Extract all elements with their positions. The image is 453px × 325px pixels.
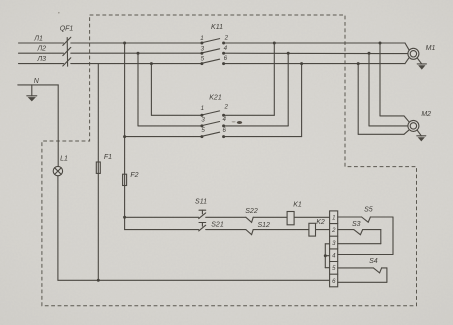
svg-text:Л2: Л2 — [36, 46, 46, 53]
pin numbers K21 — [201, 104, 229, 135]
svg-text:1: 1 — [201, 105, 204, 112]
wire control rail 1 — [125, 216, 330, 218]
switch S4 — [373, 268, 381, 273]
enclosure dashed border — [42, 15, 417, 306]
ground at M1 frame — [417, 58, 426, 70]
wire K21 out row2 to L2 bus — [224, 53, 289, 126]
lamp L1 — [53, 166, 62, 175]
fuse F1 — [96, 162, 100, 173]
svg-text:S12: S12 — [257, 222, 270, 229]
dust speck artifact — [58, 12, 242, 124]
svg-text:S3: S3 — [352, 221, 361, 228]
svg-text:5: 5 — [201, 56, 205, 63]
svg-text:6: 6 — [224, 55, 228, 62]
svg-text:5: 5 — [201, 127, 205, 134]
svg-text:2: 2 — [223, 104, 228, 111]
pushbutton S21 — [199, 223, 206, 231]
wire M2 feed from L2 — [369, 53, 408, 126]
svg-text:M2: M2 — [421, 111, 431, 118]
svg-text:Л1: Л1 — [33, 36, 43, 43]
wire neutral N — [18, 85, 58, 166]
circuit breaker QF1 — [63, 37, 71, 66]
svg-text:K11: K11 — [211, 24, 223, 31]
svg-text:K2: K2 — [316, 219, 325, 226]
switch S5 — [362, 217, 371, 222]
svg-text:2: 2 — [331, 228, 336, 234]
svg-text:1: 1 — [200, 35, 203, 42]
coil K1 — [287, 212, 294, 225]
svg-text:K1: K1 — [293, 201, 302, 208]
svg-text:S11: S11 — [195, 199, 207, 206]
contact S12 — [246, 230, 253, 235]
contactor contact K21 pole 3-4 — [202, 122, 219, 126]
svg-text:L1: L1 — [60, 155, 68, 162]
wire L3 to F1 to bottom rail — [97, 64, 99, 281]
wire M2 feed from L3 — [358, 64, 409, 135]
jumper bracket terminals 3-4-5 — [325, 244, 329, 268]
svg-text:F2: F2 — [130, 172, 138, 179]
svg-text:M1: M1 — [426, 45, 436, 52]
motor M2 — [408, 120, 419, 131]
svg-text:4: 4 — [224, 45, 228, 52]
ground at M2 frame — [417, 130, 426, 141]
wire tap L2 to K21 pin3 — [138, 53, 202, 126]
wire terminal5 to S4 loop — [338, 268, 387, 282]
wire K21 out row3 to L3 bus — [224, 64, 302, 137]
svg-text:S4: S4 — [369, 258, 378, 265]
svg-text:F1: F1 — [104, 154, 112, 161]
wire M2 feed from L1 — [380, 43, 409, 122]
svg-text:K21: K21 — [209, 95, 222, 102]
wire tap L3 to K21 pin1 — [151, 64, 202, 116]
wire phase L3 bus — [19, 58, 409, 64]
contactor contact K11 pole 5-6 — [202, 59, 219, 63]
svg-text:6: 6 — [222, 127, 226, 134]
svg-text:Л3: Л3 — [36, 56, 46, 63]
svg-text:S5: S5 — [364, 206, 373, 213]
ground on N — [27, 85, 37, 102]
wire phase L2 bus — [19, 52, 408, 54]
svg-text:3: 3 — [201, 45, 205, 52]
svg-text:2: 2 — [224, 35, 229, 42]
contactor contact K11 pole 3-4 — [202, 49, 219, 53]
motor M1 — [408, 48, 419, 59]
svg-text:3: 3 — [201, 116, 205, 123]
pushbutton S11 — [199, 210, 206, 218]
wire K21 out row1 to L1 bus — [224, 43, 275, 115]
svg-text:1: 1 — [332, 216, 335, 222]
svg-text:S22: S22 — [245, 208, 258, 215]
coil K2 — [309, 223, 316, 236]
terminal numbers 1-6 — [331, 216, 336, 285]
pin numbers K11 — [200, 35, 228, 63]
svg-text:QF1: QF1 — [60, 26, 74, 33]
wire phase L1 bus — [19, 43, 409, 50]
svg-text:S21: S21 — [211, 221, 224, 228]
wire lamp to bottom rail — [58, 176, 330, 280]
wire control rail 2 — [125, 229, 330, 231]
fuse F2 — [123, 174, 127, 185]
contact S22 — [246, 217, 253, 222]
terminal block XT — [330, 211, 338, 287]
contactor contact K21 pole 5-6 — [202, 132, 219, 136]
contactor contact K21 pole 1-2 — [202, 111, 219, 115]
svg-text:4: 4 — [222, 116, 226, 123]
contactor contact K11 pole 1-2 — [202, 39, 219, 43]
switch S3 — [354, 230, 363, 235]
wire tap to F2 and K21 pin5 — [125, 43, 202, 230]
wire terminal1 to S5 loop — [338, 217, 393, 255]
wire terminal2 to S3 loop — [338, 230, 381, 244]
